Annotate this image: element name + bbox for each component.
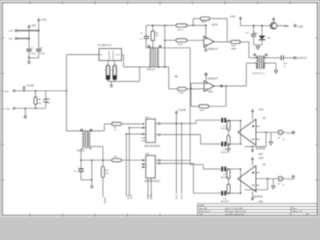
svg-text:Sheet: 2/7: Sheet: 2/7 [293,210,304,213]
svg-text:Size: A4: Size: A4 [199,207,208,210]
svg-text:-15V: -15V [31,25,37,28]
svg-text:MCP3 (1+1): MCP3 (1+1) [253,73,265,75]
svg-text:1.4V: 1.4V [146,195,148,200]
svg-text:TCA-1T: TCA-1T [76,149,85,152]
svg-text:+3.3VB: +3.3VB [26,85,35,88]
svg-text:-15V: -15V [258,201,264,204]
svg-text:100R: 100R [178,93,184,95]
svg-text:+15V: +15V [41,18,47,21]
svg-text:4k02: 4k02 [202,21,208,23]
svg-text:30u/10V: 30u/10V [221,128,230,130]
svg-text:30u/10V: 30u/10V [221,152,230,154]
svg-text:+15V: +15V [230,15,236,18]
svg-text:BUF634: BUF634 [254,196,264,199]
svg-text:U2B: U2B [208,91,213,94]
svg-text:CH.1N: CH.1N [287,132,295,135]
svg-text:4R99: 4R99 [231,49,237,51]
svg-text:Rev:: Rev: [293,208,298,210]
svg-text:OPA2277: OPA2277 [208,78,219,81]
svg-text:1M: 1M [155,35,158,37]
svg-text:CH.2N: CH.2N [287,178,295,181]
svg-text:GND: GND [6,108,11,110]
svg-text:(1.7k)Ω: (1.7k)Ω [2,91,9,93]
svg-text:3.3V: 3.3V [174,195,176,200]
svg-text:dac-filter-output.sch: dac-filter-output.sch [225,213,245,216]
svg-text:U2B: U2B [145,153,150,155]
svg-text:BUF634: BUF634 [256,147,266,150]
svg-text:F.Elm: F.Elm [199,205,205,207]
svg-text:+3.3VB: +3.3VB [178,109,187,112]
svg-text:+15V: +15V [258,157,264,160]
svg-text:Date: 12 Jan 2005: Date: 12 Jan 2005 [225,207,244,210]
svg-text:C2B: C2B [283,63,288,65]
svg-text:OPA2277: OPA2277 [208,48,219,51]
svg-text:OUTPUT: OUTPUT [296,56,308,60]
svg-text:Revision: 2007-07-03: Revision: 2007-07-03 [225,211,247,213]
svg-text:OUT: OUT [116,55,121,57]
svg-text:U22A: U22A [212,24,219,27]
svg-text:100n: 100n [40,53,46,55]
svg-text:SM74AUP2G3: SM74AUP2G3 [144,145,160,148]
svg-text:TC4-1T: TC4-1T [147,68,156,71]
svg-text:SM74AUP2G3: SM74AUP2G3 [144,180,160,183]
svg-text:Title:: Title: [199,213,204,216]
svg-text:+REF: +REF [283,26,289,28]
svg-text:-15V: -15V [258,153,264,156]
svg-text:2.5V: 2.5V [129,195,131,200]
svg-text:2.5V: 2.5V [180,195,182,200]
svg-text:VREF: VREF [103,198,105,205]
svg-text:+15V: +15V [8,31,14,33]
svg-text:180R: 180R [178,44,183,46]
svg-text:GND: GND [149,195,151,200]
svg-text:KiCad 0.7.4: KiCad 0.7.4 [199,211,211,213]
svg-text:10V: 10V [267,38,271,40]
svg-text:F1 SELF 40: F1 SELF 40 [98,44,112,47]
svg-text:-15V: -15V [8,39,13,41]
svg-text:30u/10V: 30u/10V [221,177,230,179]
svg-text:+10V: +10V [297,25,303,28]
svg-text:100n: 100n [31,53,37,55]
svg-text:3.3V: 3.3V [126,195,128,200]
svg-text:30u/10V: 30u/10V [221,201,230,203]
svg-text:+15V: +15V [258,109,264,112]
svg-text:U2H: U2H [145,117,150,119]
svg-text:RB 1k: RB 1k [178,30,185,32]
